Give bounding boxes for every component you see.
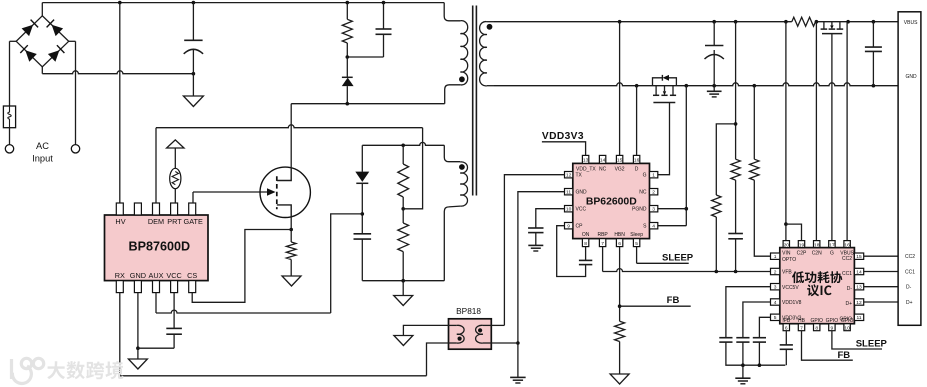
svg-text:G: G xyxy=(830,251,834,257)
svg-text:VIN: VIN xyxy=(782,251,791,257)
wire: Q2 source riser xyxy=(685,86,687,226)
wire: snubber RC link xyxy=(347,56,383,58)
ground: C6 earth xyxy=(528,244,543,246)
svg-text:AC: AC xyxy=(36,141,49,151)
node: divider tap xyxy=(401,207,405,211)
svg-text:16: 16 xyxy=(634,158,640,164)
transformer T1 secondary winding xyxy=(480,22,487,86)
capacitor C4 aux xyxy=(354,233,372,235)
node: chain junction xyxy=(734,122,738,126)
wire: snubber C bottom stem xyxy=(383,34,385,57)
node: secondary polarity dot xyxy=(487,24,493,30)
U2 right pins xyxy=(650,172,658,178)
svg-text:2: 2 xyxy=(774,269,777,275)
capacitor C7 ON xyxy=(579,259,592,261)
wire: DEM tap link xyxy=(403,128,422,209)
svg-text:4: 4 xyxy=(652,224,655,230)
transformer T1 primary winding xyxy=(460,21,467,85)
svg-text:15: 15 xyxy=(617,158,623,164)
svg-text:BP87600D: BP87600D xyxy=(128,239,190,253)
Q2 body arrow xyxy=(663,91,666,95)
svg-text:CS: CS xyxy=(187,271,197,280)
connector J1 USB xyxy=(898,12,921,326)
wire: aux cap bottom stem xyxy=(361,239,363,281)
svg-text:1: 1 xyxy=(774,254,777,260)
svg-text:GND: GND xyxy=(906,74,918,80)
wire: IFB stem xyxy=(785,331,787,345)
wire: U4 left-top to arrow gnd xyxy=(403,325,448,335)
node: aux polarity dot xyxy=(459,164,465,170)
wire: ON stem xyxy=(585,247,587,261)
wire: aux diode top stem xyxy=(361,145,363,172)
node: U4 right coil dot xyxy=(478,328,482,332)
thermistor RT1 oval xyxy=(170,168,181,188)
wire: GND link to VCC cap xyxy=(138,347,174,349)
node: GND rail dots xyxy=(635,84,639,88)
wire: DEM horizontal line xyxy=(156,125,423,128)
capacitor C8 chain2 xyxy=(728,233,743,235)
svg-text:NC: NC xyxy=(599,166,607,172)
svg-text:14: 14 xyxy=(856,269,862,275)
Q1 drain internal xyxy=(277,167,291,180)
resistor R7 chain2 xyxy=(731,159,740,180)
diode D3 bridge bottom-left xyxy=(25,50,37,61)
svg-text:GND: GND xyxy=(130,271,146,280)
ground: output earth ground xyxy=(707,90,722,92)
svg-text:1: 1 xyxy=(652,173,655,179)
wire: VBUS rail left xyxy=(494,21,792,23)
svg-text:AUX: AUX xyxy=(148,271,163,280)
svg-text:FB: FB xyxy=(667,295,680,306)
node: drain link junction xyxy=(346,102,350,106)
wire: VDD_TX stub xyxy=(542,142,586,156)
svg-text:Input: Input xyxy=(32,153,53,163)
resistor R9 chain3 xyxy=(750,159,759,180)
wire: PRT stem lower xyxy=(174,189,176,203)
svg-text:BP818: BP818 xyxy=(456,306,481,316)
watermark text xyxy=(47,361,123,379)
resistor R2 source sense xyxy=(286,242,296,260)
svg-text:D+: D+ xyxy=(845,301,852,307)
svg-text:PGND: PGND xyxy=(632,207,647,213)
U4 left coil xyxy=(457,325,464,343)
U2 top pins xyxy=(582,155,588,163)
capacitor C3 snubber xyxy=(376,28,392,30)
wire: C13 bottom xyxy=(785,349,787,365)
svg-text:D: D xyxy=(635,166,639,172)
svg-text:Sleep: Sleep xyxy=(630,232,643,238)
ground: arrow ground triangle xyxy=(394,336,413,346)
wire: RX riser xyxy=(119,293,121,376)
ground: input ground triangle xyxy=(183,96,203,107)
ground: U2 gnd earth xyxy=(510,376,526,378)
wire: bridge top corner riser xyxy=(41,3,43,16)
node: aux top junction xyxy=(401,144,405,148)
wire: bridge right corner down xyxy=(69,40,76,42)
node: GND-VCC junction xyxy=(136,346,140,350)
wire: VCC5V line xyxy=(726,287,771,338)
wire: HBN riser xyxy=(619,247,621,322)
wire: Q3 gate riser xyxy=(831,34,833,241)
resistor R6 FB xyxy=(615,321,625,341)
wire: secondary bottom lead xyxy=(487,85,494,87)
ground: U1 GND triangle xyxy=(128,359,147,369)
svg-text:14: 14 xyxy=(600,158,606,164)
AC terminal 1 xyxy=(5,145,13,153)
node: FB junction xyxy=(618,304,622,308)
node: VBUS rail dots xyxy=(618,20,622,24)
capacitor C9 output xyxy=(865,46,882,48)
svg-text:6: 6 xyxy=(618,241,621,247)
node: DC- rail to bulk cap xyxy=(192,72,196,76)
svg-text:2: 2 xyxy=(652,190,655,196)
wire: bridge bottom corner riser xyxy=(41,67,43,74)
wire: GND pin riser xyxy=(137,293,139,349)
U1 top pins xyxy=(116,203,123,215)
node: VFB dots xyxy=(715,270,719,274)
wire: CP link xyxy=(557,226,586,277)
diode D4 bridge bottom-right xyxy=(48,50,60,61)
svg-text:VDD1V8: VDD1V8 xyxy=(782,300,802,306)
op-chip U3 protocol IC body xyxy=(780,248,855,324)
wire: fuse to AC terminal 1 xyxy=(9,128,11,145)
op-chip U4 BP818 body xyxy=(449,319,492,349)
svg-text:GATE: GATE xyxy=(184,217,203,226)
AC terminal 2 xyxy=(71,145,79,153)
wire: C10 bottom xyxy=(726,342,785,365)
wire: D+ link xyxy=(864,301,898,303)
capacitor C11 VDD1V8 xyxy=(736,337,749,339)
wire: HV riser xyxy=(119,3,121,203)
svg-text:GPIO: GPIO xyxy=(841,318,854,324)
svg-text:VDD_TX: VDD_TX xyxy=(576,166,596,172)
svg-text:RBP: RBP xyxy=(597,232,608,238)
wire: CC2 link xyxy=(864,255,898,257)
bridge rectifier BR1 frame xyxy=(16,16,68,67)
wire: chain2 bottom stem xyxy=(735,239,737,272)
wire: VDD1V8 line xyxy=(743,302,771,338)
svg-text:IFB: IFB xyxy=(782,318,790,324)
svg-text:HB: HB xyxy=(798,318,806,324)
wire: chain3 riser xyxy=(753,86,755,160)
svg-text:GPIO: GPIO xyxy=(810,318,823,324)
svg-text:D-: D- xyxy=(847,286,853,292)
U3 title line1 xyxy=(792,271,842,283)
capacitor C1 bulk electrolytic xyxy=(184,39,202,41)
svg-text:G: G xyxy=(643,173,647,179)
svg-text:11: 11 xyxy=(566,190,571,196)
transistor Q1 circle xyxy=(260,167,310,217)
wire: HB FB stub xyxy=(802,331,853,361)
wire: Sleep stub xyxy=(636,247,638,264)
resistor R8 chain1 xyxy=(712,195,721,217)
wire: bulk cap bottom lead xyxy=(192,50,194,74)
wire: top DC+ rail xyxy=(42,2,444,4)
svg-text:7: 7 xyxy=(800,325,803,331)
svg-text:15: 15 xyxy=(856,254,862,260)
resistor R1 snubber xyxy=(342,19,352,43)
svg-text:9: 9 xyxy=(831,325,834,331)
wire: output earth stem xyxy=(713,86,715,92)
wire: chain1 link xyxy=(716,124,735,195)
svg-text:17: 17 xyxy=(829,242,835,248)
U2 left pins xyxy=(565,172,573,178)
node: VIN branch xyxy=(784,222,788,226)
svg-text:HV: HV xyxy=(115,217,125,226)
wire: bulk cap top lead xyxy=(192,3,194,41)
node: U4 left coil dot xyxy=(458,337,462,341)
Q2 contact bars xyxy=(653,94,659,96)
svg-text:HBN: HBN xyxy=(614,232,625,238)
Q1 channel dashed xyxy=(276,176,278,209)
svg-text:CC1: CC1 xyxy=(842,271,852,277)
wire: aux ground stem xyxy=(402,281,404,296)
wire: U2 VCC line xyxy=(536,209,565,228)
transformer T1 aux winding xyxy=(460,162,467,206)
svg-text:9: 9 xyxy=(567,224,570,230)
wire: Q2 gate lead xyxy=(658,103,670,175)
svg-text:TX: TX xyxy=(576,173,583,179)
capacitor C12 VDD3V3 xyxy=(753,337,766,339)
wire: snubber R bottom stem xyxy=(346,43,348,57)
svg-text:18: 18 xyxy=(814,242,820,248)
svg-text:RX: RX xyxy=(115,271,125,280)
wire: R4 stems xyxy=(402,209,404,223)
svg-text:SLEEP: SLEEP xyxy=(856,339,888,350)
wire: U4 right-top link xyxy=(491,324,504,326)
svg-text:6: 6 xyxy=(785,325,788,331)
svg-text:DEM: DEM xyxy=(148,217,164,226)
wire: R2 to ground xyxy=(290,260,292,277)
node: PGND junction xyxy=(685,207,689,211)
wire: AUX tap link xyxy=(331,214,363,313)
wire: PGND link xyxy=(658,208,687,210)
svg-text:C2N: C2N xyxy=(812,251,822,257)
Q3 gate bar xyxy=(822,33,842,35)
capacitor C13 IFB xyxy=(780,344,793,346)
svg-text:CC2: CC2 xyxy=(905,254,915,260)
svg-text:CP: CP xyxy=(576,224,584,230)
Q3 body arrow xyxy=(830,25,833,29)
wire: aux top horizontal xyxy=(362,142,444,145)
wire: VIN riser xyxy=(785,22,787,241)
svg-text:8: 8 xyxy=(815,325,818,331)
svg-text:SLEEP: SLEEP xyxy=(662,253,694,264)
U1 bottom pins xyxy=(116,281,123,293)
wire: aux bottom lead xyxy=(444,206,460,281)
resistor R3 divider upper xyxy=(398,164,409,197)
capacitor C6 U2 VCC xyxy=(528,227,543,229)
wire: C6 bottom stem xyxy=(535,233,537,246)
wire: VBUS sense riser xyxy=(846,22,848,241)
svg-text:12: 12 xyxy=(856,300,862,306)
wire: snubber diode top stem xyxy=(346,57,348,77)
svg-text:19: 19 xyxy=(799,242,805,248)
node: aux ground junction xyxy=(401,279,405,283)
node: primary polarity dot xyxy=(459,76,465,82)
diode D2 bridge top-right xyxy=(52,25,64,36)
wire: primary top lead xyxy=(444,3,460,21)
wire: aux top lead xyxy=(444,145,460,161)
op-chip U1 BP87600D body xyxy=(105,215,209,281)
svg-text:C2P: C2P xyxy=(797,251,807,257)
wire: C11 bottom xyxy=(742,342,744,365)
wire: snubber R top stem xyxy=(346,3,348,20)
U3 bottom pins xyxy=(783,324,789,331)
arrow: gate arrowhead xyxy=(267,188,276,195)
U3 title line2 xyxy=(807,284,831,296)
svg-text:GPIO: GPIO xyxy=(826,318,839,324)
wire: AUX riser xyxy=(155,293,157,313)
resistor R4 divider lower xyxy=(398,223,409,252)
wire: U4 left-bottom to RX rail xyxy=(427,343,449,376)
wire: GATE riser and gate wire xyxy=(192,192,194,203)
fuse F1 xyxy=(3,106,15,128)
wire: CS link xyxy=(192,230,291,303)
svg-text:20: 20 xyxy=(784,242,790,248)
svg-text:13: 13 xyxy=(856,285,862,291)
svg-text:16: 16 xyxy=(844,242,850,248)
svg-text:D-: D- xyxy=(906,285,912,291)
wire: C12 bottom xyxy=(758,342,760,365)
node: snubber RC junction xyxy=(346,55,350,59)
node: top rail junction dots xyxy=(118,1,122,5)
Q1 source internal xyxy=(277,205,291,218)
wire: VBUS rail right xyxy=(816,21,899,23)
op-chip U2 BP62600D body xyxy=(573,163,650,238)
svg-text:VBUS: VBUS xyxy=(904,20,918,26)
wire: RX bottom rail xyxy=(120,375,427,377)
svg-text:12: 12 xyxy=(566,173,572,179)
diode D5 snubber xyxy=(342,76,353,78)
wire: R3 stems xyxy=(402,145,404,164)
svg-text:PRT: PRT xyxy=(167,217,182,226)
svg-text:FB: FB xyxy=(837,350,850,361)
node: aux VCC junction xyxy=(361,212,365,216)
watermark logo xyxy=(12,358,44,383)
svg-text:10: 10 xyxy=(566,207,572,213)
U4 right coil xyxy=(476,325,483,343)
svg-text:D+: D+ xyxy=(906,300,913,306)
svg-text:VG2: VG2 xyxy=(615,166,625,172)
wire: drain horizontal link xyxy=(291,103,445,105)
wire: VG2 riser xyxy=(619,22,621,156)
transformer T1 core xyxy=(472,6,474,196)
wire: Q2 drain riser to pin16 xyxy=(636,86,638,156)
wire: snubber C top stem xyxy=(383,3,385,29)
svg-text:3: 3 xyxy=(652,207,655,213)
wire: chain2 VBUS riser xyxy=(735,22,737,160)
wire: caps earth stem xyxy=(742,365,744,378)
U2 bottom pins xyxy=(582,239,588,247)
capacitor C5 output electrolytic xyxy=(705,45,723,47)
wire: D- link xyxy=(864,286,898,288)
svg-text:VCC5V: VCC5V xyxy=(782,285,799,291)
wire: GPIO9 SLEEP stub xyxy=(832,331,882,349)
svg-text:13: 13 xyxy=(583,158,589,164)
wire: TX line to BP818 xyxy=(504,175,564,326)
transistor Q3 load switch stubs xyxy=(823,22,825,29)
svg-text:11: 11 xyxy=(856,315,861,321)
wire: C9 leads xyxy=(872,22,874,47)
wire: U4 right-bottom gnd link xyxy=(491,342,518,344)
arrow: PRT top open triangle xyxy=(167,140,184,148)
svg-text:CC1: CC1 xyxy=(905,270,915,276)
Q2 channel stubs xyxy=(655,86,657,96)
svg-text:VFB: VFB xyxy=(782,270,792,276)
resistor R5 output series xyxy=(792,17,816,26)
wire: CC1 link xyxy=(864,271,898,273)
svg-text:3: 3 xyxy=(774,285,777,291)
wire: chain3 to OPTO xyxy=(754,180,770,256)
ground: aux ground triangle xyxy=(394,296,413,306)
wire: FB stub xyxy=(620,305,691,307)
wire: C2N riser xyxy=(815,22,817,241)
svg-text:5: 5 xyxy=(635,241,638,247)
node: BP818 gnd junction xyxy=(516,341,520,345)
wire: primary bottom lead xyxy=(445,85,461,104)
wire: PRT stem upper xyxy=(174,148,176,169)
wire: aux bottom rail xyxy=(362,280,444,282)
diode D1 bridge top-left xyxy=(22,25,33,36)
svg-text:NC: NC xyxy=(639,190,647,196)
wire: chain2 mid stem xyxy=(735,180,737,233)
wire: GND stem xyxy=(137,348,139,359)
wire: DC minus rail xyxy=(42,71,193,74)
wire: source to CS node xyxy=(290,218,292,243)
svg-text:5: 5 xyxy=(774,315,777,321)
svg-text:7: 7 xyxy=(601,241,604,247)
svg-text:8: 8 xyxy=(584,241,587,247)
node: CS junction xyxy=(289,228,293,232)
wire: drain riser xyxy=(290,104,292,167)
wire: GND rail xyxy=(494,83,898,86)
svg-text:VCC: VCC xyxy=(166,271,181,280)
U4 internal stubs xyxy=(449,324,457,326)
svg-text:VDD3V3: VDD3V3 xyxy=(542,131,584,142)
node: cap rail dots xyxy=(741,363,745,367)
wire: bridge left corner to fuse xyxy=(10,40,17,42)
wire: C2P branch xyxy=(786,224,802,241)
wire: S link xyxy=(658,225,687,227)
wire: R6 to ground xyxy=(619,342,621,375)
wire: C5 leads xyxy=(713,22,715,46)
svg-text:GND: GND xyxy=(576,190,588,196)
ground: FB ground triangle xyxy=(610,374,629,384)
Q3 contact bars xyxy=(821,28,828,30)
wire: secondary top lead xyxy=(487,21,494,23)
diode D6 aux xyxy=(355,172,369,182)
wire: aux diode bottom stem xyxy=(361,183,363,234)
transistor Q2 sync rectifier body-diode loop xyxy=(653,78,677,86)
capacitor C2 VCC xyxy=(166,327,182,329)
svg-text:CC2: CC2 xyxy=(842,256,852,262)
svg-text:VCC: VCC xyxy=(576,207,587,213)
svg-text:BP62600D: BP62600D xyxy=(586,196,637,207)
U3 right pins xyxy=(854,253,863,259)
wire: AUX horizontal xyxy=(156,310,331,313)
U3 top pins xyxy=(783,241,789,248)
svg-text:OPTO: OPTO xyxy=(782,257,796,263)
ground: Q1 source ground xyxy=(282,276,301,286)
svg-text:10: 10 xyxy=(844,325,850,331)
ground: caps earth xyxy=(735,377,750,379)
U3 left pins xyxy=(771,253,780,259)
svg-text:ON: ON xyxy=(582,232,590,238)
wire: snubber diode bottom stem xyxy=(346,86,348,104)
wire: VCC cap bottom xyxy=(173,334,175,348)
wire: DEM riser xyxy=(155,128,157,203)
